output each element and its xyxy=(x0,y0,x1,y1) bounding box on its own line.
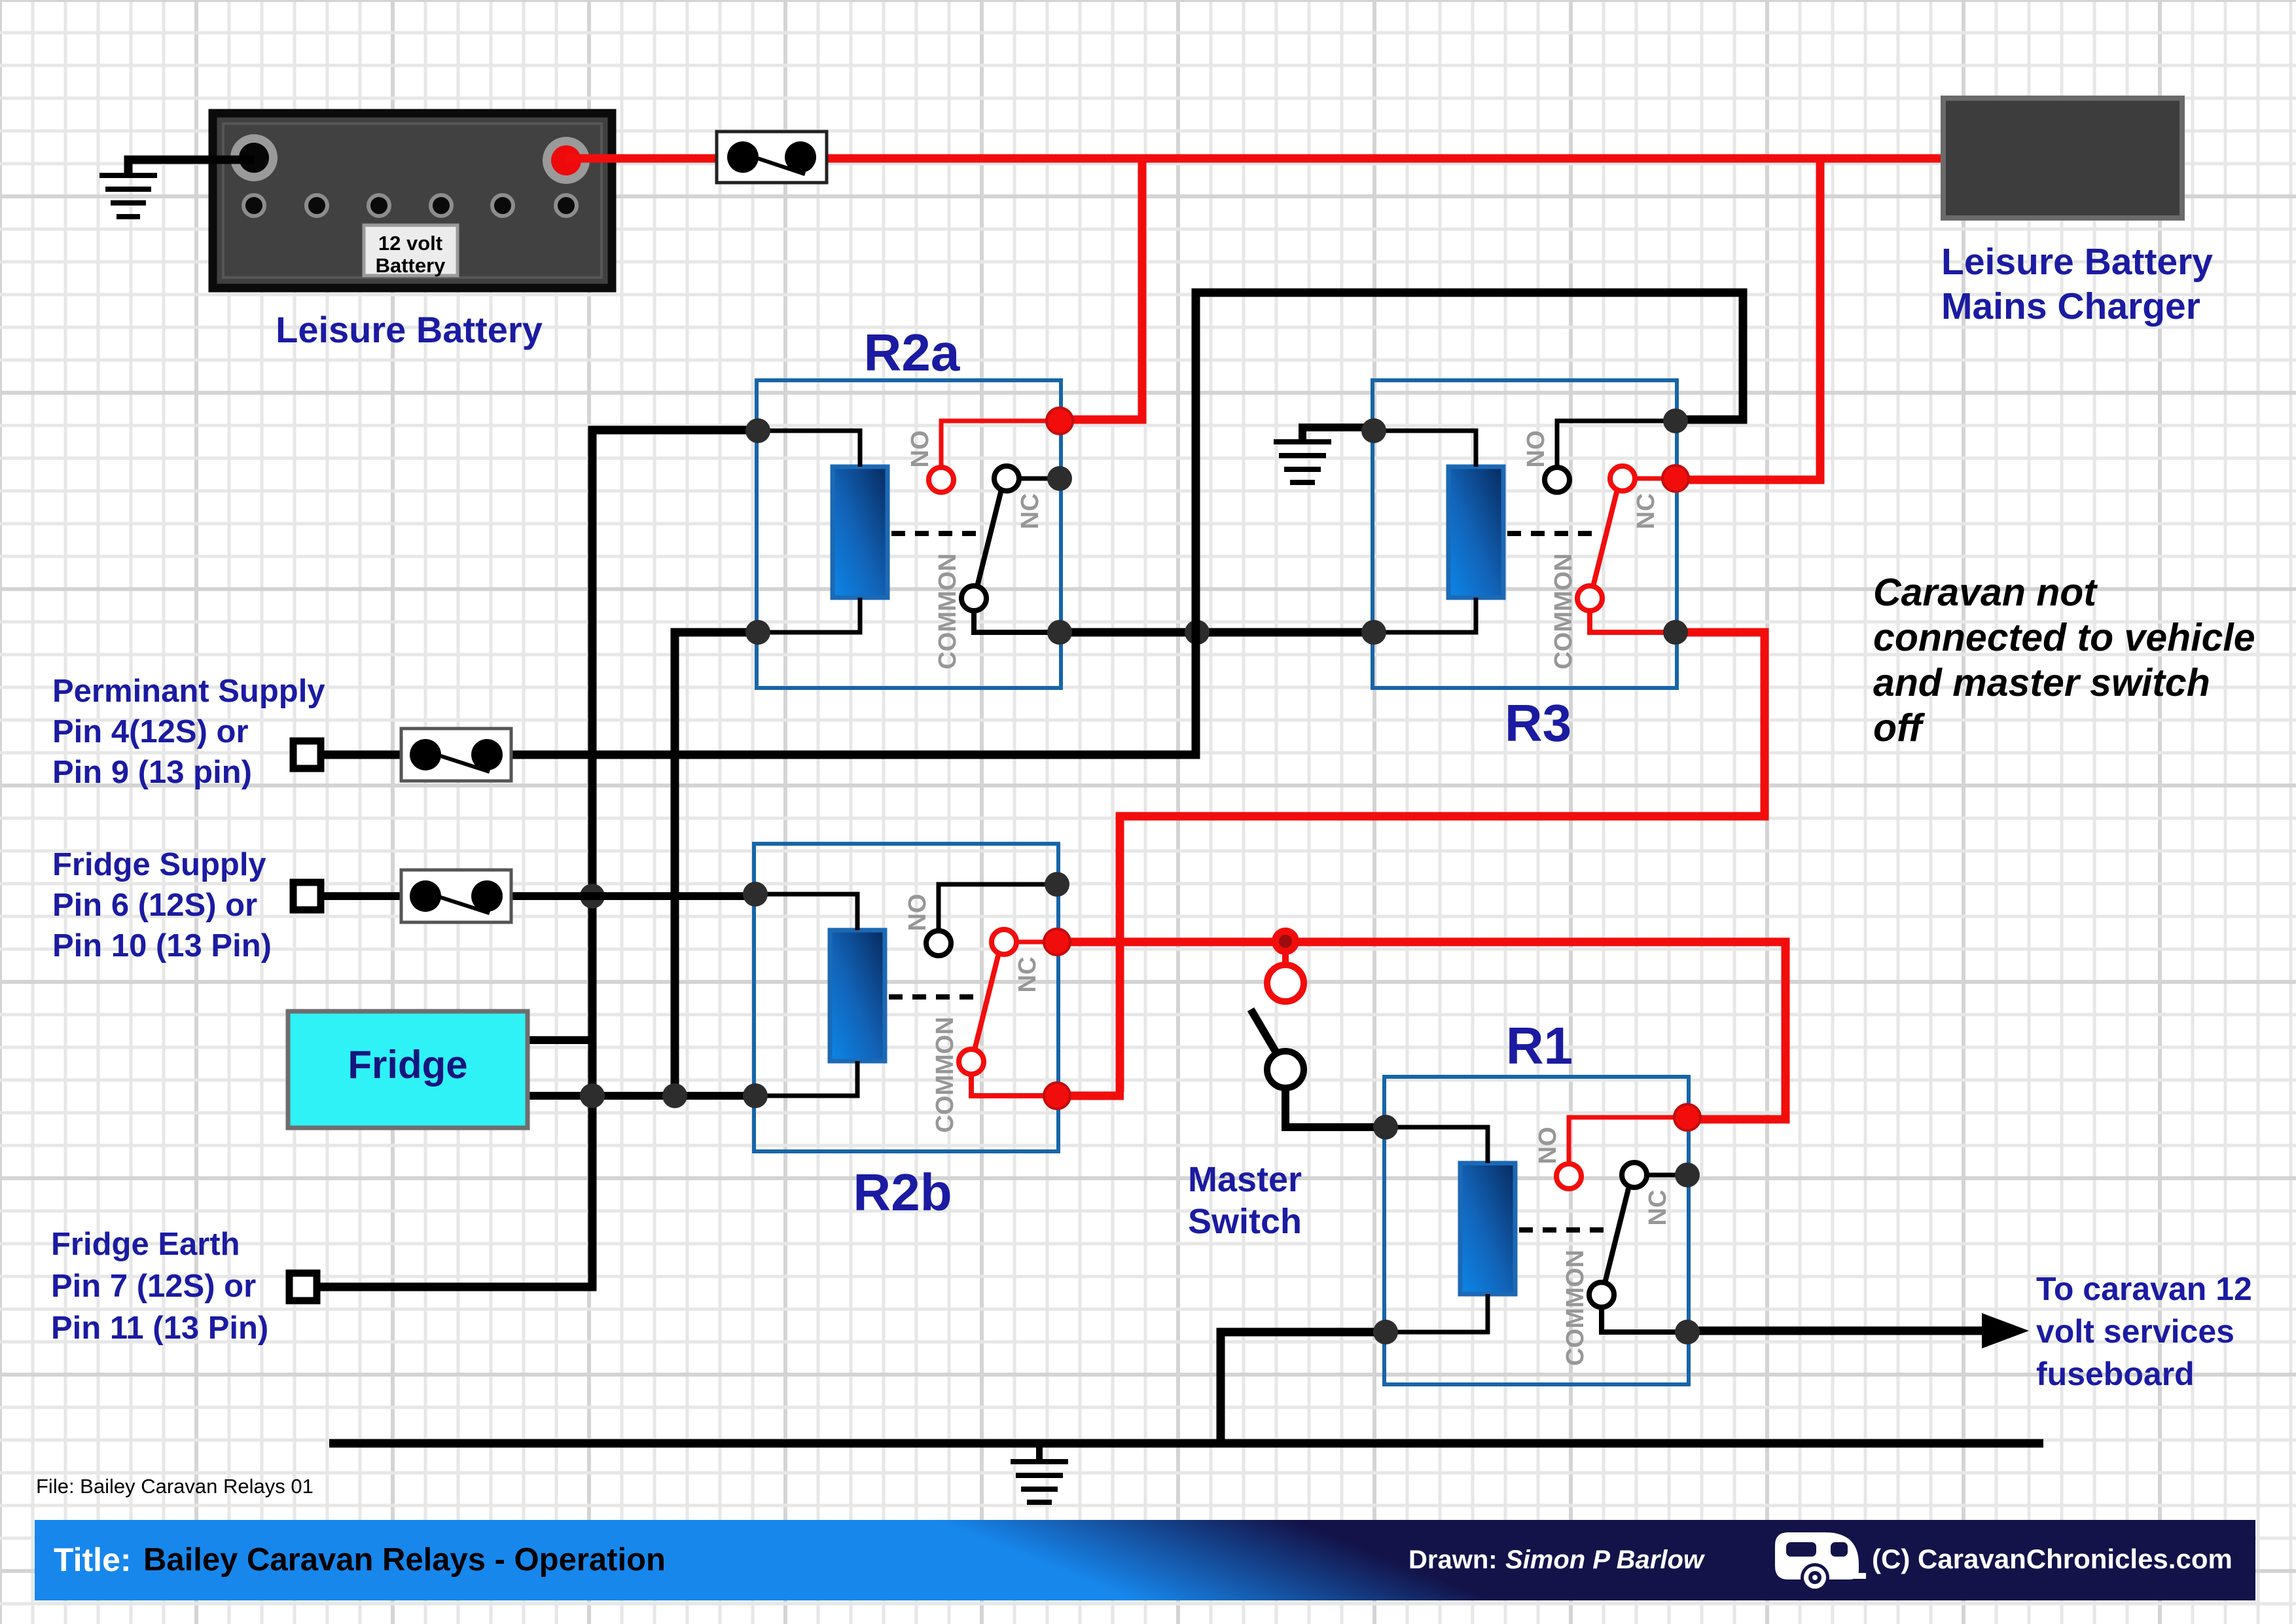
relay R3 coil xyxy=(1448,467,1503,598)
master switch top contact xyxy=(1267,965,1304,1001)
svg-text:NO: NO xyxy=(906,431,934,468)
ground symbol (R3 coil) xyxy=(1274,442,1331,482)
svg-text:R3: R3 xyxy=(1505,694,1571,752)
pin R2a COMMON terminal xyxy=(961,586,986,611)
wire red bus R2b NC to R1 NO xyxy=(1062,942,1785,1119)
wire battery positive red rail to charger xyxy=(566,154,1943,163)
relay R2a dashed actuator link xyxy=(891,531,983,536)
wire R2b NC lead xyxy=(1016,940,1058,945)
wire red drop from rail to R3 NC junction xyxy=(1679,158,1820,480)
svg-text:Pin 9 (13 pin): Pin 9 (13 pin) xyxy=(52,755,252,790)
switch arm R2b xyxy=(975,953,999,1050)
wire main ground rail xyxy=(329,1439,2043,1448)
svg-text:NO: NO xyxy=(904,894,931,931)
wire R1 coil- to ground rail xyxy=(1221,1332,1386,1443)
svg-text:Mains Charger: Mains Charger xyxy=(1941,285,2200,327)
wire master switch to R1 coil+ xyxy=(1285,1087,1386,1127)
switch arm R3 xyxy=(1593,490,1617,586)
svg-text:File: Bailey Caravan Relays 01: File: Bailey Caravan Relays 01 xyxy=(36,1475,314,1498)
svg-text:Caravan not: Caravan not xyxy=(1873,571,2098,614)
wire fridge bottom net to R2b coil- xyxy=(528,1092,755,1100)
svg-text:NC: NC xyxy=(1014,957,1041,993)
pin R1 NC terminal xyxy=(1622,1163,1647,1187)
pin R1 COMMON terminal xyxy=(1589,1282,1614,1307)
wire R3 COMMON lead xyxy=(1590,611,1676,632)
caravan icon xyxy=(1775,1532,1866,1592)
svg-text:Drawn:: Drawn: xyxy=(1408,1545,1498,1574)
svg-text:COMMON: COMMON xyxy=(1550,553,1577,669)
wire permanent supply over relays to R3 NO xyxy=(720,293,1743,755)
label To caravan 12 volt services fuseboard xyxy=(2036,1271,2252,1392)
svg-text:COMMON: COMMON xyxy=(1562,1250,1589,1365)
switch arm R2a xyxy=(977,490,1001,586)
relay R1 dashed actuator link xyxy=(1519,1227,1611,1233)
relay R2a box xyxy=(757,380,1061,688)
wire R2a NC lead xyxy=(1019,477,1061,481)
leisure battery mains charger box xyxy=(1943,98,2182,218)
node junction vertical B / fridge bottom net xyxy=(662,1083,687,1108)
terminal square permanent supply pin xyxy=(293,741,321,768)
wire R1 coil top lead xyxy=(1386,1127,1488,1163)
battery 12 volt label plate xyxy=(364,225,457,277)
pin R2a NC terminal xyxy=(994,466,1019,491)
battery negative terminal xyxy=(230,134,278,181)
wire permanent supply to fuse F2 xyxy=(321,751,726,759)
node R2b coil+ terminal xyxy=(743,882,768,907)
wire red drop to R2a NO junction xyxy=(1064,158,1142,420)
svg-text:fuseboard: fuseboard xyxy=(2036,1356,2195,1392)
node R3 COMMON right terminal xyxy=(1663,620,1688,645)
label Permanent Supply pins xyxy=(52,674,325,790)
node R3 coil- terminal xyxy=(1361,620,1386,645)
switch arm R1 xyxy=(1605,1186,1629,1283)
svg-text:Simon P Barlow: Simon P Barlow xyxy=(1505,1545,1706,1574)
label Fridge Earth pins xyxy=(51,1227,268,1346)
wire R2a COMMON lead xyxy=(974,611,1060,632)
wire fridge supply to R2b coil+ xyxy=(321,892,755,900)
ground symbol (main rail) xyxy=(1011,1443,1068,1502)
svg-text:Pin 10 (13 Pin): Pin 10 (13 Pin) xyxy=(52,928,272,964)
fridge box xyxy=(288,1011,528,1128)
svg-text:Bailey Caravan Relays - Operat: Bailey Caravan Relays - Operation xyxy=(143,1542,666,1578)
relay R2a coil xyxy=(833,467,888,598)
svg-text:Fridge Earth: Fridge Earth xyxy=(51,1227,240,1262)
node R2b NC right terminal xyxy=(1044,929,1070,955)
node R2a NC right terminal xyxy=(1047,466,1072,491)
master switch bottom contact xyxy=(1267,1051,1304,1088)
svg-text:connected to vehicle: connected to vehicle xyxy=(1873,616,2255,659)
svg-text:Title:: Title: xyxy=(54,1542,132,1578)
relay R2b box xyxy=(754,844,1058,1151)
wire R3 COMMON loop down to R2b NC level xyxy=(1120,632,1765,1092)
svg-text:NO: NO xyxy=(1534,1127,1562,1164)
svg-text:R2a: R2a xyxy=(864,323,960,382)
wire R1 coil bottom lead xyxy=(1386,1294,1488,1332)
wire R2b coil top lead xyxy=(755,894,857,930)
node R3 NO top-right terminal xyxy=(1663,408,1688,433)
svg-text:volt services: volt services xyxy=(2036,1313,2234,1350)
svg-text:R1: R1 xyxy=(1506,1017,1573,1075)
leisure battery body xyxy=(213,113,612,288)
wire R2b NO lead xyxy=(939,884,1057,930)
svg-text:R2b: R2b xyxy=(853,1163,952,1221)
node junction master switch on red bus xyxy=(1272,928,1299,955)
wire R2b COMMON lead xyxy=(971,1074,1057,1096)
svg-text:(C) CaravanChronicles.com: (C) CaravanChronicles.com xyxy=(1872,1543,2233,1574)
note caravan not connected xyxy=(1873,571,2255,749)
master switch lever (open) xyxy=(1251,1009,1281,1060)
terminal square fridge earth pin xyxy=(289,1273,317,1301)
wire R1 COMMON lead xyxy=(1602,1307,1687,1332)
wire R3 NC lead xyxy=(1635,477,1677,481)
svg-text:off: off xyxy=(1873,706,1926,749)
svg-text:Battery: Battery xyxy=(376,254,446,277)
svg-text:NC: NC xyxy=(1632,494,1660,530)
svg-text:COMMON: COMMON xyxy=(934,553,961,669)
label Master Switch xyxy=(1188,1160,1302,1241)
node junction vertical A / fridge bottom net xyxy=(580,1083,605,1108)
wire R2b coil bottom lead xyxy=(755,1061,857,1096)
svg-text:To caravan 12: To caravan 12 xyxy=(2036,1271,2252,1307)
battery cell caps xyxy=(243,195,577,216)
node R3 NC right terminal xyxy=(1662,465,1689,492)
node R1 COMMON right terminal xyxy=(1675,1320,1700,1344)
svg-text:Master: Master xyxy=(1188,1160,1302,1199)
label Leisure Battery Mains Charger xyxy=(1941,241,2213,327)
relay R3 box xyxy=(1372,380,1677,688)
node R2b NO top-right terminal xyxy=(1045,872,1069,897)
ground symbol (battery negative) xyxy=(99,175,157,217)
node junction vertical A / fridge supply xyxy=(580,884,605,909)
node R2b COMMON right terminal xyxy=(1044,1083,1070,1109)
wire R3 NO lead xyxy=(1557,421,1676,467)
svg-text:NC: NC xyxy=(1644,1190,1672,1226)
pin R2b COMMON terminal xyxy=(959,1049,984,1074)
relay R1 coil xyxy=(1460,1163,1515,1294)
node junction permanent supply / bottom rail xyxy=(1185,620,1210,645)
node R1 NC right terminal xyxy=(1675,1163,1700,1187)
pin R2b NO terminal xyxy=(926,931,951,956)
svg-text:Perminant Supply: Perminant Supply xyxy=(52,674,325,709)
relay R3 dashed actuator link xyxy=(1507,531,1599,536)
svg-text:NO: NO xyxy=(1522,431,1550,468)
svg-text:Pin 6 (12S) or: Pin 6 (12S) or xyxy=(52,888,257,923)
fuse F3 (fridge supply) xyxy=(401,870,511,922)
node R3 coil+ terminal xyxy=(1361,418,1386,443)
wire bottom rail R2a COMMON to R3 coil- xyxy=(1060,628,1374,637)
svg-text:Pin 7 (12S) or: Pin 7 (12S) or xyxy=(51,1269,256,1304)
svg-text:COMMON: COMMON xyxy=(931,1017,959,1132)
pin R1 NO terminal xyxy=(1556,1164,1581,1189)
label Fridge Supply pins xyxy=(52,847,272,964)
wire R1 NC lead xyxy=(1647,1173,1689,1178)
wire ground to R3 coil+ xyxy=(1302,427,1374,441)
node R2a coil+ terminal xyxy=(745,418,770,443)
fuse F1 (battery positive) xyxy=(717,132,827,183)
node R1 NO top-right terminal xyxy=(1674,1104,1700,1130)
node R2a coil- terminal xyxy=(745,620,770,645)
svg-text:Fridge Supply: Fridge Supply xyxy=(52,847,266,882)
wire R2a coil top lead xyxy=(758,431,860,467)
svg-text:12 volt: 12 volt xyxy=(378,232,442,255)
svg-text:and master switch: and master switch xyxy=(1873,661,2210,704)
wire R2a NO lead xyxy=(941,421,1060,467)
svg-text:Pin 4(12S) or: Pin 4(12S) or xyxy=(52,714,249,749)
pin R2b NC terminal xyxy=(992,929,1016,954)
relay R1 box xyxy=(1384,1077,1689,1384)
wire R3 coil bottom lead xyxy=(1374,598,1476,632)
title bar xyxy=(35,1520,2255,1600)
svg-text:Pin 11 (13 Pin): Pin 11 (13 Pin) xyxy=(51,1310,268,1346)
node R2a NO top-right terminal xyxy=(1047,408,1073,434)
wire R2a coil+ feed down left (vertical A) to fridge earth xyxy=(320,430,758,1287)
node R2a COMMON right terminal xyxy=(1047,620,1072,645)
pin R3 COMMON terminal xyxy=(1577,586,1602,611)
svg-text:Leisure Battery: Leisure Battery xyxy=(1941,241,2213,283)
wire R1 COMMON to caravan services arrow xyxy=(1689,1313,2029,1348)
pin R2a NO terminal xyxy=(929,467,954,492)
terminal square fridge supply pin xyxy=(293,882,321,910)
relay R2b coil xyxy=(830,930,885,1061)
node R2b coil- terminal xyxy=(743,1083,768,1108)
wire battery negative to chassis ground xyxy=(128,160,254,174)
wire R2b COMMON out to red riser xyxy=(1062,1092,1124,1100)
svg-text:NC: NC xyxy=(1016,494,1044,530)
wire R3 coil top lead xyxy=(1374,431,1476,467)
pin R3 NO terminal xyxy=(1545,467,1570,492)
battery positive terminal xyxy=(543,137,590,184)
pin R3 NC terminal xyxy=(1610,466,1635,491)
node R1 coil+ terminal xyxy=(1373,1115,1398,1140)
relay R2b dashed actuator link xyxy=(889,994,980,1000)
wire R2a coil bottom lead xyxy=(758,598,860,632)
svg-text:Leisure Battery: Leisure Battery xyxy=(276,309,543,350)
wire R1 NO lead xyxy=(1569,1117,1687,1163)
wire fridge top lead xyxy=(528,1036,592,1044)
fuse F2 (permanent supply) xyxy=(401,729,511,781)
wire bottom rail from vertical B to R2a coil- xyxy=(675,632,758,1096)
svg-text:Switch: Switch xyxy=(1188,1202,1302,1241)
wire master switch stub xyxy=(1282,948,1289,967)
svg-text:Fridge: Fridge xyxy=(348,1043,467,1087)
node R1 coil- terminal xyxy=(1373,1320,1398,1344)
